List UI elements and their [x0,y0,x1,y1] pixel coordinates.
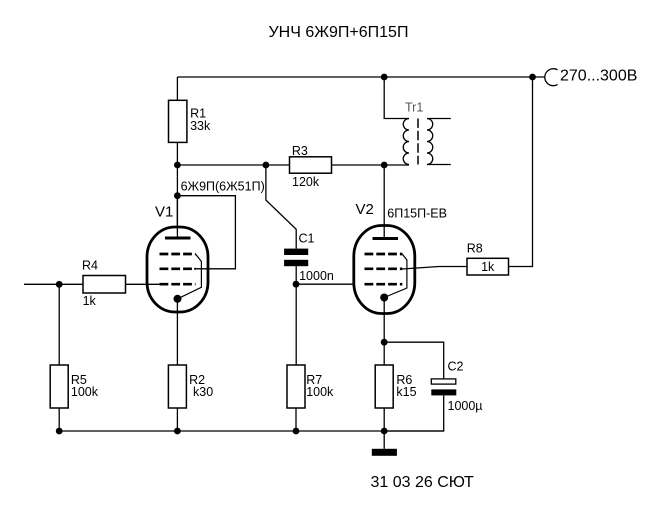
core [417,119,419,165]
node junction dot ground R7 [293,428,300,435]
node junction dot C1/R7/V2 grid [293,281,300,288]
anode plate [165,237,191,240]
ground [383,431,385,449]
svg-text:УНЧ 6Ж9П+6П15П: УНЧ 6Ж9П+6П15П [269,24,409,41]
node junction dot ground R5 [56,428,63,435]
node junction dot top rail / right rail [529,74,536,81]
secondary winding [427,119,433,165]
anode lead inside [383,226,385,239]
wire g3 to cathode [178,254,202,299]
svg-text:1k: 1k [481,260,495,274]
resistor R4 [83,276,126,294]
wire g3 to cathode [384,254,407,298]
envelope [147,227,208,312]
node junction dot ground R2 [174,428,181,435]
node junction dot screen loop [174,192,181,199]
wire R6 bottom lead [383,408,385,431]
wire R1 top lead [176,77,178,100]
svg-text:R3: R3 [292,144,308,158]
resistor R8 [467,258,509,275]
wire R7 bottom lead [295,408,297,431]
wire cathode lead down [383,298,385,366]
wire R2 bottom lead [176,408,178,431]
node junction dot top rail / Tr1 primary [381,74,388,81]
anode plate [373,237,399,240]
svg-text:270...300В: 270...300В [560,67,637,84]
svg-text:33k: 33k [190,119,211,133]
node junction dot C1 branch [263,162,270,169]
wire secondary top stub [427,118,451,120]
anode lead inside [176,196,178,238]
envelope [354,226,415,314]
svg-text:1k: 1k [83,294,97,308]
svg-text:R4: R4 [82,259,98,273]
wire input to V1 grid [24,283,161,285]
wire R3 right to Tr1 bottom node [332,164,410,166]
tube V2 [354,165,415,365]
wire horizontal R1 to R3 [177,164,289,166]
svg-text:6Ж9П(6Ж51П): 6Ж9П(6Ж51П) [181,180,265,194]
resistor R2 [168,365,186,408]
svg-text:100k: 100k [71,385,99,399]
grid g1 [160,283,196,286]
grid g2 [160,267,196,270]
wire C2 bottom to ground rail [384,395,444,431]
svg-text:31 03 26 СЮТ: 31 03 26 СЮТ [371,474,475,491]
grid g3 [160,253,196,256]
resistor R5 [50,365,68,408]
wire R5 bottom lead [58,408,60,431]
wire top supply rail [177,76,544,78]
resistor R6 [375,365,393,408]
wire secondary bottom stub [427,164,451,166]
cathode dot [174,295,182,303]
svg-text:k30: k30 [193,385,213,399]
node junction dot R1/anode [174,162,181,169]
svg-text:V2: V2 [356,201,374,218]
svg-text:1000µ: 1000µ [448,399,483,413]
svg-text:R8: R8 [467,242,483,256]
wire cathode lead down [176,299,178,365]
primary winding [403,119,409,165]
wire junction to V2 grid [296,283,367,285]
wire bottom ground rail [59,430,444,432]
wire C2 branch [384,342,444,379]
wire screen-to-anode loop [177,196,235,269]
wire right rail down to R8 [509,77,533,267]
svg-text:100k: 100k [306,385,334,399]
capacitor C2 positive plate [431,379,456,384]
wire Tr1 primary top stub [384,77,409,119]
tube V1 [147,196,208,365]
svg-text:120k: 120k [292,175,320,189]
svg-text:1000n: 1000n [299,269,334,283]
capacitor C1 [284,249,308,255]
wire R5 top lead [58,284,60,365]
cathode dot [380,294,388,302]
node junction dot V2 cathode / C2 [381,339,388,346]
resistor R1 [169,100,187,142]
grid g1 [365,283,403,286]
node junction dot Tr1 primary bottom / V2 anode [381,162,388,169]
svg-text:Tr1: Tr1 [405,101,423,115]
capacitor C2 negative plate [431,389,456,395]
terminal 270...300В [545,69,558,86]
wire C1 bottom to junction [295,266,297,365]
svg-text:V1: V1 [155,204,173,221]
wire R1 bottom to V1 anode [176,142,178,238]
wire C1 branch diagonal [266,165,296,249]
svg-text:C1: C1 [299,232,315,246]
wire V2 g2 to R8 [402,267,467,270]
resistor R7 [287,365,305,408]
wire V2 anode lead [383,165,385,239]
resistor R3 [290,157,332,173]
node junction dot ground R6 [381,428,388,435]
svg-text:k15: k15 [396,385,416,399]
svg-text:C2: C2 [448,360,464,374]
grid g2 [365,267,403,270]
svg-text:6П15П-ЕВ: 6П15П-ЕВ [387,207,447,221]
transformer Tr1 [384,77,451,165]
grid g3 [365,253,403,256]
node junction dot input/R4/R5 [56,281,63,288]
